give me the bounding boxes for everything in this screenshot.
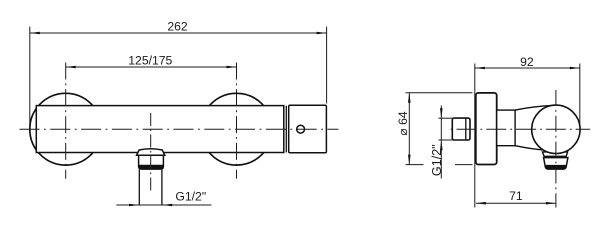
- side view horizontal centerline: [448, 128, 590, 130]
- dim 125/175 line: [66, 66, 237, 68]
- knob vertical center line: [555, 90, 557, 208]
- outlet nut bottom band: [139, 165, 164, 169]
- body neck: [497, 110, 515, 146]
- svg-text:G1/2": G1/2": [430, 144, 444, 176]
- outlet dome: [137, 149, 165, 155]
- dim 71 line: [476, 202, 556, 204]
- dim G1/2 side leader line: [440, 106, 442, 179]
- ring line between body and end cap: [285, 106, 287, 153]
- dim G1/2 front arrow right: [162, 204, 172, 207]
- knob circle: [532, 105, 580, 153]
- dim G1/2 side arrow top: [440, 108, 443, 118]
- outlet tube left edge: [138, 169, 140, 205]
- dim 92 extension right: [579, 64, 581, 125]
- outlet tube right edge: [161, 169, 163, 205]
- outlet nut: [139, 155, 164, 169]
- dim 125/175 arrow left: [66, 66, 76, 69]
- left circle center line: [65, 63, 67, 179]
- dim dia64 extension top: [406, 92, 473, 94]
- hose outlet nut: [544, 158, 568, 170]
- dim 262 extension line left: [29, 27, 31, 132]
- dim G1/2 side arrow bottom: [440, 140, 443, 150]
- right bell circle: [201, 93, 273, 165]
- svg-text:G1/2": G1/2": [175, 190, 206, 204]
- dim dia64 line: [408, 93, 410, 165]
- dim G1/2 front arrow left: [129, 204, 139, 207]
- inlet connector inner line: [465, 118, 467, 140]
- dim G1/2 side extension top: [439, 117, 453, 119]
- wall flange disc: [476, 93, 497, 165]
- mixer body bar: [36, 106, 283, 153]
- dim 125/175 arrow right: [227, 66, 237, 69]
- left bell circle: [30, 93, 102, 165]
- dim dia64 extension bottom left segment: [406, 164, 424, 166]
- dim 262 line: [30, 32, 327, 34]
- right circle center line: [236, 63, 238, 179]
- dim dia64 arrow top: [408, 93, 411, 103]
- svg-text:262: 262: [167, 20, 188, 34]
- dim 92 extension left / 71 shared: [474, 64, 476, 208]
- hose outlet collar: [542, 152, 567, 156]
- dim 71 arrow right: [546, 202, 556, 205]
- dim 92 arrow right: [570, 67, 580, 70]
- dim 92 line: [475, 67, 580, 69]
- hose outlet nut bottom band: [545, 165, 567, 169]
- svg-text:125/175: 125/175: [128, 54, 172, 68]
- body flare top edge: [515, 105, 552, 110]
- dim dia64 arrow bottom: [408, 155, 411, 165]
- svg-text:⌀ 64: ⌀ 64: [396, 111, 410, 136]
- inlet connector: [452, 118, 470, 140]
- dim 262 arrow right: [317, 32, 327, 35]
- end cap box: [289, 105, 327, 152]
- dim 71 arrow left: [476, 202, 486, 205]
- dim 262 arrow left: [30, 32, 40, 35]
- dim 262 extension line right: [326, 27, 328, 104]
- body flare bottom edge: [515, 146, 543, 150]
- screw dot on end cap: [297, 125, 305, 133]
- dim 92 arrow left: [475, 67, 485, 70]
- dim dia64 extension bottom right segment: [455, 164, 473, 166]
- svg-text:92: 92: [520, 55, 534, 69]
- outlet center line: [150, 113, 152, 191]
- dim G1/2 side extension bottom: [439, 139, 453, 141]
- dim G1/2 front line: [116, 204, 211, 206]
- svg-text:71: 71: [509, 189, 523, 203]
- horizontal centerline of body: [20, 128, 339, 130]
